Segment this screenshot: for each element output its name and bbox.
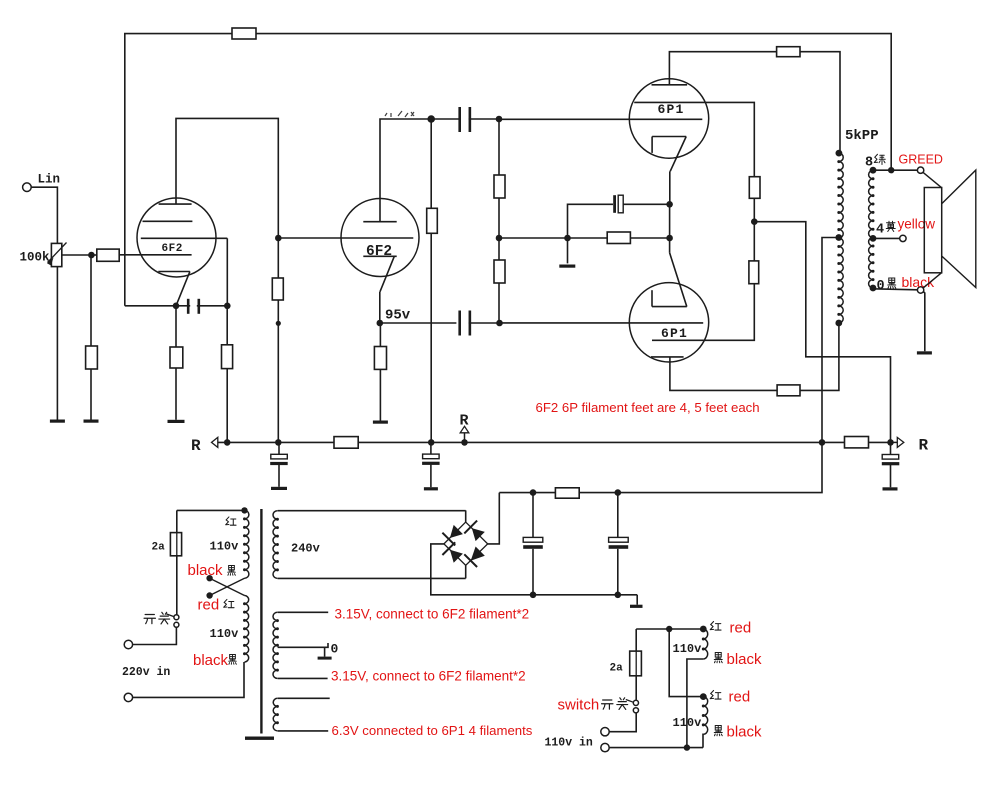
ground C6 [424, 487, 438, 490]
tube V4 cathode left leg [651, 290, 653, 306]
resistor feedback R-fb [232, 28, 256, 39]
wire bias row [499, 237, 568, 239]
label red CJK T3b [710, 690, 721, 699]
wire bridge minus to ground line [431, 544, 637, 595]
svg-text:110v: 110v [673, 642, 702, 656]
wire resistor to lower node [277, 300, 279, 323]
ground pot [50, 420, 65, 423]
wire grid line to V3 [499, 118, 702, 120]
wire R-g2a to screen node [753, 198, 755, 221]
wire 95v row [380, 322, 457, 324]
transformer T2 primary winding A [245, 510, 249, 578]
label yellow CJK [886, 221, 895, 231]
wire V1 cathode to resistor [175, 306, 177, 347]
node screen junction [751, 218, 758, 225]
net arrow R right [891, 437, 904, 447]
node crossover stub bottom [206, 592, 212, 598]
wire R27 to rail [226, 369, 228, 443]
resistor screen upper R-g2a [749, 177, 760, 199]
transformer T3 winding 2 [703, 697, 707, 735]
net arrow R left [212, 437, 218, 447]
svg-text:110v: 110v [210, 627, 239, 641]
node grid junction [88, 252, 95, 259]
svg-text:220v in: 220v in [122, 666, 170, 679]
node rail 431 [428, 439, 435, 446]
potentiometer 100k [47, 243, 67, 267]
transformer T2 6.3v winding [273, 698, 277, 731]
wire 8ohm tap row [873, 169, 917, 171]
wire C2 right lead [469, 118, 500, 120]
terminal 0 [917, 287, 923, 293]
tube V1 cathode bar [158, 271, 190, 273]
transformer T3 winding 1 [703, 629, 707, 659]
ground V2 cathode [373, 421, 388, 424]
wire 3.15v center tap [278, 643, 328, 647]
speaker driver box [924, 188, 941, 273]
capacitor rail filter C6 [422, 454, 440, 465]
svg-text:3.15V, connect to 6F2 filament: 3.15V, connect to 6F2 filament*2 [335, 607, 530, 622]
transformer T2 240v winding [273, 511, 277, 579]
wire W1 bottom link [687, 659, 703, 748]
tube V3 cathode diagonal [670, 137, 686, 172]
wire divider upper leads [498, 119, 500, 175]
terminal 8ohm [917, 167, 923, 173]
svg-text:6F2 6P filament feet are 4, 5: 6F2 6P filament feet are 4, 5 feet each [536, 400, 760, 415]
capacitor filter C9 [609, 493, 629, 595]
tube V3 screen g2 line [634, 101, 705, 103]
node OPT primary bottom [835, 320, 842, 327]
ground grid leak [84, 420, 99, 423]
wire V2 cathode resistor leads [379, 323, 381, 347]
terminal 220v neutral [124, 693, 132, 701]
svg-text:black: black [727, 651, 763, 668]
svg-text:6.3V connected to 6P1 4 filame: 6.3V connected to 6P1 4 filaments [332, 723, 533, 738]
svg-text:GREED: GREED [899, 153, 943, 167]
svg-text:red: red [198, 597, 220, 614]
node secondary 8ohm tap [870, 167, 877, 174]
transformer T2 primary winding B [245, 596, 249, 662]
tube V1 plate bar [159, 203, 192, 205]
tube V4 cathode diagonal [670, 253, 687, 307]
svg-text:0: 0 [331, 642, 339, 657]
wire bias resistor left lead [568, 237, 608, 239]
tube V3 cathode bar [652, 136, 686, 138]
resistor B+ dropper [555, 488, 579, 498]
wire mains top [177, 509, 245, 511]
node at 278/323 [276, 321, 281, 326]
node rail 890 [887, 439, 894, 446]
wire 0 lead [873, 288, 917, 290]
speaker bottom diagonal [923, 273, 941, 288]
resistor divider upper [494, 175, 505, 198]
tube V2 cathode diagonal [380, 256, 394, 291]
node V2 cathode 95v [377, 320, 384, 327]
node T3 top mid [666, 626, 672, 632]
ground bias network [559, 265, 575, 268]
svg-text:R: R [460, 413, 469, 430]
wire terminal to switch [609, 713, 636, 732]
resistor rail left [334, 437, 358, 449]
svg-text:2a: 2a [152, 542, 166, 554]
wire 4ohm lead [873, 237, 900, 239]
svg-text:6P1: 6P1 [661, 326, 688, 341]
wire V2 plate lead up and right [380, 119, 431, 222]
node V1 plate / V2 grid [275, 235, 282, 242]
tube V4 screen g2 line [652, 339, 704, 341]
node bottom grid-side [496, 320, 503, 327]
node secondary 0 tap [870, 285, 877, 292]
tube V4 6P1 lower envelope [629, 283, 708, 362]
tube V2 plate bar [363, 221, 396, 223]
resistor V2 plate load column [427, 208, 438, 233]
svg-text:95v: 95v [385, 308, 411, 324]
resistor V1 plate load [272, 278, 283, 300]
label red CJK A [226, 517, 236, 525]
node Lin input terminal [23, 183, 32, 192]
ground C5 [271, 487, 287, 490]
node divider mid [496, 235, 503, 242]
wire Lin to pot [31, 187, 57, 243]
tube V2 6F2 triode envelope [341, 199, 419, 277]
wire 6.3v top lead [278, 697, 330, 699]
wire bias resistor right lead [630, 237, 669, 239]
wire grid-leak to ground [90, 369, 92, 420]
svg-text:yellow: yellow [898, 217, 936, 232]
label black CJK B [229, 654, 237, 664]
fuse 2a left [170, 510, 181, 614]
wire 240v bottom lead [278, 577, 466, 579]
wire W2 bottom link [702, 734, 704, 747]
wire 3.15v bottom lead [278, 677, 328, 679]
terminal 4ohm [900, 235, 906, 241]
ground speaker return [917, 351, 932, 354]
wire pot bottom to ground [56, 267, 58, 420]
wire R-p3 to OPT primary top [800, 52, 840, 152]
speaker top diagonal [923, 172, 942, 187]
node primary A top [241, 507, 247, 513]
terminal 110v neutral [601, 743, 609, 751]
node rail Rup [461, 439, 468, 446]
label kaiguan right [602, 698, 628, 710]
wire V3 g2 to screen column [705, 102, 755, 176]
transformer T2 3.15v winding [273, 612, 277, 678]
wire T3 bottom bus [609, 747, 703, 749]
node cathode V4 junction [666, 235, 673, 242]
ground PSU main [630, 605, 643, 608]
wire cathode node link [669, 204, 671, 238]
capacitor rail filter C7 [882, 455, 900, 466]
tube V4 plate bar [651, 356, 684, 358]
svg-text:6P1: 6P1 [658, 102, 685, 117]
wire 0 tap to ground [923, 292, 925, 352]
node cathode V3 junction [666, 201, 673, 208]
wire down to rail [277, 323, 279, 442]
svg-text:red: red [730, 620, 752, 637]
node rail 278 [275, 439, 282, 446]
svg-text:0: 0 [877, 279, 885, 294]
node B+ cap2 top [615, 489, 622, 496]
capacitor filter C8 [523, 493, 543, 595]
svg-text:black: black [188, 562, 224, 579]
svg-text:6F2: 6F2 [162, 243, 183, 255]
wire switch to terminal 1 [133, 627, 177, 644]
resistor grid stopper [97, 249, 119, 261]
tube V1 g3 line [141, 237, 228, 239]
node rail 227 [224, 439, 231, 446]
wire R-g2b leads [753, 222, 755, 261]
node T3 W1 top [700, 626, 707, 633]
wire C3 right lead [469, 322, 500, 324]
capacitor rail filter C5 [270, 454, 288, 465]
wire W2 top link [669, 629, 703, 697]
wire plate node to resistor [277, 238, 279, 278]
wire C5 leads [278, 442, 280, 454]
label black CJK spk [888, 278, 896, 288]
svg-text:black: black [727, 724, 763, 741]
svg-text:R: R [919, 437, 929, 455]
wire C1 right lead [197, 305, 228, 307]
wire grid-leak drop [90, 255, 92, 346]
svg-text:110v in: 110v in [545, 737, 593, 750]
wire ground line end step [636, 595, 638, 605]
node T3 W2 top [700, 693, 707, 700]
ground T2 core [245, 737, 274, 740]
wire bias node stub to ground [567, 238, 569, 263]
label kaiguan left [144, 612, 170, 624]
wire C2 left lead [431, 118, 461, 120]
wire bridge bottom AC stub [465, 565, 467, 578]
wire bridge top AC stub [465, 510, 467, 522]
wire V3 cathode down [669, 171, 671, 204]
node B+ cap1 top [530, 489, 537, 496]
wire crossover X [210, 578, 245, 595]
node rail 822 [819, 439, 826, 446]
node coupling top plate-side [427, 115, 435, 123]
wire C1 left lead [176, 305, 190, 307]
label red CJK B [224, 599, 234, 607]
wire pot wiper to grid node [62, 254, 92, 256]
net marker R up [460, 426, 469, 442]
capacitor coupling C3 bottom [458, 311, 471, 336]
wire CT ground stub [324, 647, 326, 656]
wire T3 top bus [636, 628, 703, 630]
svg-text:black: black [193, 652, 229, 669]
svg-text:6F2: 6F2 [366, 244, 392, 260]
node feedback pick [888, 167, 894, 173]
tube V1 screen grid g2 [143, 220, 193, 222]
ground V1 cathode [168, 420, 185, 423]
resistor V2 cathode Rk2 [374, 347, 386, 370]
node OPT primary top [836, 150, 843, 157]
capacitor coupling C2 top [458, 107, 471, 132]
svg-text:110v: 110v [673, 716, 702, 730]
tube V4 cathode bar [652, 306, 687, 308]
transformer OPT secondary winding [869, 170, 873, 288]
svg-text:4: 4 [876, 223, 884, 238]
node V1 cathode [173, 303, 180, 310]
resistor grid leak [86, 346, 98, 369]
node top grid-side [496, 116, 503, 123]
tube V2 cathode bar [363, 255, 396, 257]
node C1 right [224, 303, 231, 310]
wire V3 plate lead [669, 52, 776, 85]
erased 112v remnant marks [385, 111, 414, 117]
resistor V3 plate R-p3 [777, 47, 800, 57]
wire rail main [218, 441, 891, 443]
resistor V4 plate R-p4 [777, 385, 800, 396]
node crossover stub top [206, 575, 212, 581]
label black CJK T3a [714, 653, 722, 663]
resistor divider lower [494, 260, 505, 283]
tube V2 grid line [278, 237, 413, 239]
wire V4 cathode up to node [669, 238, 671, 253]
wire V2 plate load leads [430, 119, 432, 208]
node secondary 4ohm tap [870, 235, 877, 242]
tube V3 6P1 upper envelope [629, 79, 708, 158]
svg-text:110v: 110v [210, 540, 239, 554]
wire CT to B+ rail and B+ line [499, 238, 839, 493]
resistor screen lower R-g2b [749, 261, 759, 284]
tube V1 control grid g1 [119, 254, 191, 256]
wire cathode row [125, 305, 176, 307]
node T3 bottom junction [684, 744, 690, 750]
ground filament CT [318, 657, 332, 660]
wire V4 plate lead [670, 357, 777, 391]
label green CJK [874, 154, 885, 164]
capacitor cathode bypass C4 [613, 195, 623, 213]
speaker horn [942, 170, 976, 287]
capacitor cathode bypass C1 [187, 299, 200, 314]
svg-text:Lin: Lin [38, 173, 61, 187]
ground C7 [883, 487, 898, 490]
resistor feedback-leg R27 [222, 345, 233, 369]
wire 240v top lead [278, 510, 466, 512]
wire R-p4 to OPT primary bottom [800, 323, 839, 390]
svg-text:240v: 240v [291, 542, 320, 556]
tube V1 cathode diagonal lead [176, 272, 190, 306]
node bias ground junction [564, 235, 571, 242]
wire Rk1 to ground [175, 368, 177, 420]
wire terminal 2 to primary B bottom [133, 662, 244, 697]
wire into V1 grid [91, 254, 96, 256]
label black CJK T3b [714, 726, 722, 736]
terminal 220v live [124, 640, 132, 648]
svg-text:8: 8 [865, 156, 873, 171]
resistor V1 cathode Rk1 [170, 347, 183, 368]
svg-text:2a: 2a [610, 663, 624, 675]
switch mains left [166, 614, 179, 627]
switch mains right [626, 700, 639, 713]
rectifier bridge [442, 521, 487, 567]
wire V1 plate lead to plate-load column [176, 118, 278, 238]
svg-text:5kPP: 5kPP [845, 128, 879, 144]
fuse 2a right [630, 629, 642, 700]
svg-text:100k: 100k [20, 251, 51, 265]
resistor cathode bias [607, 232, 630, 244]
wire bridge plus up to B+ [488, 493, 500, 544]
tube V3 cathode left leg [651, 137, 653, 153]
svg-text:red: red [729, 689, 751, 706]
tube V1 6F2 pentode envelope [137, 198, 216, 277]
wire divider lower leads [498, 238, 500, 260]
wire screen feed to rail [754, 222, 890, 443]
transformer OPT primary winding [839, 153, 843, 323]
svg-text:3.15V, connect to 6F2 filament: 3.15V, connect to 6F2 filament*2 [331, 669, 526, 684]
transformer T2 core [260, 509, 262, 734]
wire 3.15v top lead [278, 611, 329, 613]
node OPT primary CT [835, 234, 842, 241]
label black CJK A [228, 565, 236, 575]
feedback wire top rail [125, 34, 891, 306]
tube V3 plate bar [652, 84, 688, 86]
wire C6 leads [430, 442, 432, 454]
wire V2 cathode down to 95v node [379, 292, 381, 323]
node ground line cap1 [530, 592, 537, 599]
label red CJK T3a [710, 621, 721, 630]
wire bias cap branch [568, 204, 614, 238]
wire 6.3v bottom lead [278, 730, 329, 732]
svg-text:R: R [191, 437, 201, 455]
terminal 110v live [601, 728, 609, 736]
wire C4 right lead [623, 203, 669, 205]
resistor rail right [845, 437, 869, 448]
wire V1 g3 down to cathode cap node [226, 238, 228, 305]
wire C1-right node down [226, 306, 228, 345]
node ground line cap2 [615, 592, 622, 599]
svg-text:switch: switch [558, 697, 600, 714]
wire C7 leads [890, 442, 892, 454]
wire grid line to V4 [500, 322, 704, 324]
